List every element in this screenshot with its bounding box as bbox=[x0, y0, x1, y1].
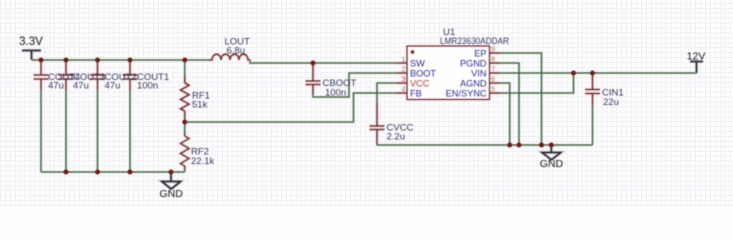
svg-text:PGND: PGND bbox=[460, 59, 487, 69]
svg-text:51k: 51k bbox=[192, 100, 208, 111]
svg-text:47u: 47u bbox=[48, 81, 64, 92]
svg-text:2.2u: 2.2u bbox=[387, 132, 406, 143]
svg-text:2: 2 bbox=[401, 65, 405, 74]
svg-text:9: 9 bbox=[491, 45, 495, 54]
svg-text:BOOT: BOOT bbox=[410, 69, 436, 79]
svg-text:6.8u: 6.8u bbox=[227, 46, 246, 57]
svg-text:SW: SW bbox=[410, 59, 425, 69]
svg-text:12V: 12V bbox=[687, 51, 706, 63]
svg-text:47u: 47u bbox=[73, 81, 89, 92]
svg-text:FB: FB bbox=[410, 89, 422, 99]
svg-text:GND: GND bbox=[160, 188, 184, 200]
svg-text:5: 5 bbox=[491, 85, 495, 94]
svg-text:7: 7 bbox=[491, 65, 495, 74]
svg-text:100n: 100n bbox=[137, 81, 158, 92]
svg-text:LMR23630ADDAR: LMR23630ADDAR bbox=[440, 36, 509, 47]
svg-text:EP: EP bbox=[474, 49, 486, 59]
svg-text:100n: 100n bbox=[325, 88, 346, 99]
svg-text:GND: GND bbox=[540, 158, 564, 170]
svg-text:1: 1 bbox=[401, 55, 405, 64]
svg-text:47u: 47u bbox=[105, 81, 121, 92]
svg-text:VCC: VCC bbox=[410, 79, 430, 89]
svg-text:22u: 22u bbox=[603, 97, 619, 108]
svg-text:4: 4 bbox=[401, 85, 405, 94]
svg-text:8: 8 bbox=[491, 55, 495, 64]
svg-text:EN/SYNC: EN/SYNC bbox=[446, 89, 487, 99]
svg-text:VIN: VIN bbox=[471, 69, 486, 79]
svg-text:22.1k: 22.1k bbox=[191, 156, 214, 167]
svg-text:3.3V: 3.3V bbox=[19, 36, 43, 48]
svg-text:AGND: AGND bbox=[460, 79, 487, 89]
svg-text:3: 3 bbox=[401, 75, 405, 84]
svg-text:6: 6 bbox=[491, 75, 495, 84]
